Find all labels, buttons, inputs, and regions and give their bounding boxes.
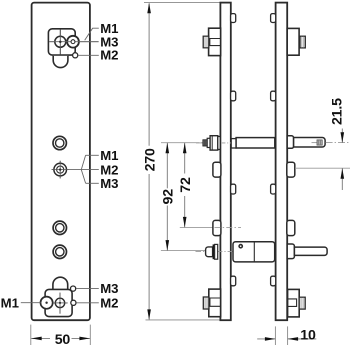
plate 2 side view xyxy=(276,3,288,321)
rod1 threaded stub xyxy=(203,140,207,146)
top fitting crosshair vertical xyxy=(59,30,61,55)
rod1 middle shaft stub xyxy=(231,139,236,148)
hole left in top square xyxy=(55,36,66,47)
rod2 shaft right xyxy=(294,247,327,255)
rod1 washer xyxy=(218,137,220,150)
svg-text:M2: M2 xyxy=(100,162,118,177)
svg-text:M3: M3 xyxy=(100,281,118,296)
leader M2 bottom xyxy=(76,302,99,304)
rod1 centerline in plate xyxy=(222,142,231,144)
rod1 centerline right xyxy=(326,142,350,144)
crosshair overlay middle xyxy=(59,161,61,179)
svg-text:M3: M3 xyxy=(100,176,118,191)
bottom fitting rounded square xyxy=(45,289,72,316)
rod1 middle shaft xyxy=(236,138,275,148)
leader M1 top xyxy=(85,28,99,40)
rod1 nut xyxy=(207,138,210,147)
svg-text:M2: M2 xyxy=(100,48,118,63)
svg-text:92: 92 xyxy=(161,189,177,205)
dimension 10 arrows xyxy=(257,338,275,340)
small hole M2 top xyxy=(73,53,78,58)
plate 1 side view xyxy=(220,3,230,321)
bolt top plate1: head xyxy=(209,28,221,55)
rod2 collar right xyxy=(287,244,294,259)
bolt top plate1: neck xyxy=(210,39,221,46)
crosshair overlay bottom xyxy=(59,293,61,314)
72 bottom extension line xyxy=(180,226,213,228)
bolt top plate1: cap xyxy=(203,36,209,48)
outer clip plate2 upper xyxy=(287,162,295,177)
rod2 cylinder xyxy=(233,242,275,262)
svg-text:M1: M1 xyxy=(1,295,19,310)
svg-text:M1: M1 xyxy=(100,148,118,163)
top U-tab below square xyxy=(53,56,68,68)
rod1 long shaft right xyxy=(294,138,326,148)
bolt bottom plate1: cap xyxy=(203,297,209,309)
rod2 flange xyxy=(213,244,215,259)
svg-text:M2: M2 xyxy=(100,295,118,310)
rod2 washer xyxy=(215,244,218,259)
270 bottom extension line xyxy=(146,319,220,321)
hole center bottom xyxy=(55,298,64,307)
ring hole lower 1 xyxy=(53,221,66,234)
rod2 screw head xyxy=(238,244,243,249)
crosshair overlay top square xyxy=(59,30,61,55)
leader M3 bottom xyxy=(76,288,99,290)
bolt bottom plate1: neck xyxy=(210,298,221,306)
outer clip plate1 upper xyxy=(213,162,221,177)
rod1 centerline left xyxy=(196,142,203,144)
dimension 50 extension lines xyxy=(30,325,32,345)
bolt bottom plate2: cap xyxy=(299,297,305,309)
middle hole M1/M2/M3 xyxy=(54,163,67,176)
rod2 centerline xyxy=(196,251,234,253)
svg-text:270: 270 xyxy=(142,148,158,171)
hole M1/M3 right in top square xyxy=(67,36,79,48)
leader M2 top xyxy=(78,54,99,56)
dimension 21.5 line and arrows xyxy=(341,129,343,143)
dimension 10 extension lines xyxy=(274,326,276,345)
ring hole lower 2 xyxy=(53,245,66,258)
top fitting crosshair horizontal / M3 leader xyxy=(49,41,98,43)
inner tabs plate1 xyxy=(231,14,236,23)
21.5 extension line xyxy=(295,167,350,169)
leader fan middle xyxy=(69,169,99,171)
bolt bottom plate2: neck xyxy=(288,299,297,307)
dimension 92 line xyxy=(166,143,168,189)
dimension 270 line xyxy=(148,3,150,145)
outer clip plate1 lower xyxy=(213,220,221,235)
svg-text:10: 10 xyxy=(300,327,316,343)
270 top extension line xyxy=(144,2,222,4)
dimension 72 line xyxy=(184,143,186,174)
92 bottom extension line (rod2 axis) xyxy=(161,250,207,252)
bolt bottom plate2: head xyxy=(288,289,300,317)
top fitting rounded square xyxy=(48,29,75,55)
inner tabs plate2 xyxy=(271,14,276,23)
svg-text:50: 50 xyxy=(55,332,71,345)
bolt bottom plate1: head xyxy=(209,289,221,317)
rod2 head xyxy=(206,247,213,257)
small hole M3 bottom xyxy=(71,286,76,291)
small hole M2 bottom xyxy=(71,300,76,305)
plate front view outline xyxy=(32,3,90,321)
middle hole M1/M2/M3 crosshair xyxy=(59,161,61,179)
bolt top plate2: cap xyxy=(300,36,305,48)
svg-text:72: 72 xyxy=(178,177,194,193)
rod1 collar right xyxy=(287,136,293,149)
svg-text:21.5: 21.5 xyxy=(330,98,346,125)
rod1 body xyxy=(210,136,218,150)
outer clip plate2 lower xyxy=(287,220,295,235)
rod1 inner grub block xyxy=(312,142,318,144)
hole M1 bottom left xyxy=(41,297,53,309)
leader M1 bottom xyxy=(21,302,41,304)
bottom arch tab xyxy=(53,277,68,289)
bolt top plate2: head xyxy=(287,28,299,55)
72 dash-dot over plate xyxy=(215,226,242,228)
ring hole upper middle xyxy=(53,136,66,149)
bottom crosshair xyxy=(59,293,61,314)
92/72 top extension line (rod1 axis) xyxy=(161,142,196,144)
dimension 50 line and arrows xyxy=(31,337,50,339)
